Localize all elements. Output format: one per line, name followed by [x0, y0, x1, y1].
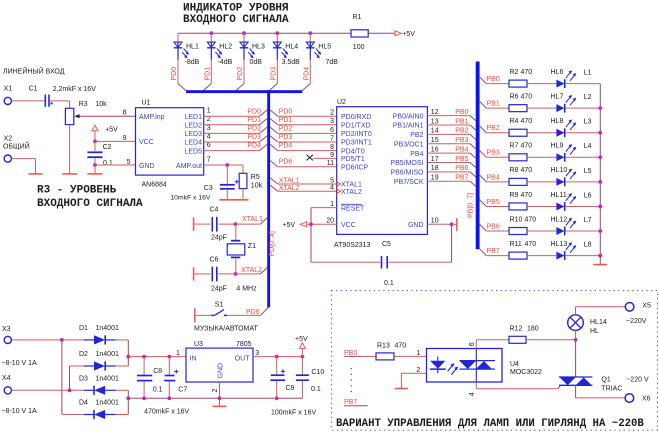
- svg-text:XTAL1: XTAL1: [242, 216, 263, 223]
- wire PB0 U2 pin12 to bus: [427, 116, 475, 121]
- wire X3 to D1: [11, 339, 83, 341]
- wire X1 to C1: [11, 100, 44, 102]
- svg-text:19: 19: [431, 175, 439, 182]
- junction X3 node: [60, 338, 64, 342]
- svg-text:Q1: Q1: [601, 376, 610, 383]
- capacitor C9 100mkF: [270, 357, 294, 399]
- svg-text:-4dB: -4dB: [218, 59, 233, 66]
- wire R9 to HL11: [527, 205, 556, 207]
- svg-text:HL8: HL8: [551, 118, 564, 125]
- svg-text:470: 470: [395, 342, 407, 349]
- potentiometer R3: [65, 101, 107, 124]
- ground U4: [395, 388, 408, 390]
- svg-text:9: 9: [123, 135, 127, 142]
- svg-text:C9: C9: [286, 385, 295, 392]
- svg-text:1n4001: 1n4001: [96, 325, 119, 332]
- wire XTAL1 to bus: [236, 218, 268, 224]
- LED HL3 (0dB): [240, 33, 265, 66]
- net label PB7: [344, 399, 368, 406]
- svg-text:HL3: HL3: [252, 44, 265, 51]
- svg-text:R7: R7: [510, 143, 519, 150]
- svg-text:PB3: PB3: [455, 137, 468, 144]
- terminal X6: [625, 394, 651, 403]
- svg-text:+5V: +5V: [282, 222, 295, 229]
- svg-text:C7: C7: [178, 387, 187, 394]
- wire R12 to lamp node: [526, 339, 576, 341]
- junction C7 top: [167, 355, 171, 359]
- ground C3/R5: [220, 199, 249, 201]
- svg-text:L8: L8: [584, 241, 592, 248]
- svg-text:7805: 7805: [236, 341, 252, 348]
- svg-text:10mkF x 16V: 10mkF x 16V: [170, 194, 211, 201]
- svg-text:PD6: PD6: [246, 309, 260, 316]
- wire X3 to D4: [62, 340, 84, 415]
- svg-text:PD4: PD4: [279, 143, 293, 150]
- wire +5V to VCC pin20: [307, 223, 337, 225]
- svg-text:GND: GND: [139, 163, 155, 170]
- wire XTAL2 to bus: [236, 268, 268, 274]
- wire PB6 U2 pin18 to bus: [427, 172, 475, 177]
- svg-text:R4: R4: [510, 118, 519, 125]
- wire HL12 to rail: [565, 230, 600, 232]
- svg-text:PB7: PB7: [455, 175, 468, 182]
- wire U3 GND down: [219, 382, 221, 406]
- svg-text:PD2: PD2: [247, 126, 261, 133]
- svg-text:100: 100: [353, 44, 365, 51]
- svg-text:X6: X6: [642, 396, 651, 403]
- wire PD4 to bus: [302, 60, 310, 91]
- junction C9 bottom: [275, 396, 279, 400]
- triac Q1: [559, 376, 622, 392]
- svg-text:470: 470: [521, 118, 533, 125]
- resistor R2 470: [509, 69, 532, 87]
- svg-text:~8-10 V 1A: ~8-10 V 1A: [2, 408, 38, 415]
- svg-text:8: 8: [123, 110, 127, 117]
- svg-text:4: 4: [207, 133, 211, 140]
- svg-text:PB1: PB1: [455, 118, 468, 125]
- svg-text:HL7: HL7: [551, 93, 564, 100]
- svg-text:L2: L2: [584, 94, 592, 101]
- svg-text:X1: X1: [4, 86, 13, 93]
- LED HL4 (3.5dB): [273, 33, 300, 66]
- svg-text:PB[0..7]: PB[0..7]: [467, 193, 474, 218]
- svg-text:1n4001: 1n4001: [96, 400, 119, 407]
- junction GND pin10: [450, 222, 454, 226]
- svg-text:PD6/ICP: PD6/ICP: [341, 165, 369, 172]
- svg-text:D4: D4: [79, 400, 88, 407]
- capacitor C10 0.1: [296, 357, 324, 399]
- wire PD2 to bus: [236, 60, 244, 91]
- wire R13 to U4 pin1: [394, 355, 438, 357]
- svg-text:U2: U2: [337, 99, 346, 106]
- svg-text:24pF: 24pF: [211, 235, 227, 242]
- svg-text:470: 470: [525, 241, 537, 248]
- svg-text:X3: X3: [2, 326, 11, 333]
- LED HL9: [551, 143, 577, 162]
- crystal Z1 4MHz: [227, 224, 256, 274]
- wire HL6 to rail: [565, 83, 600, 85]
- svg-text:470: 470: [521, 69, 533, 76]
- LED HL2 (-4dB): [207, 33, 233, 66]
- svg-text:МУЗЫКА/АВТОМАТ: МУЗЫКА/АВТОМАТ: [194, 325, 258, 332]
- terminal X3: [2, 326, 11, 344]
- junctions on rail: [598, 106, 602, 257]
- svg-text:L7: L7: [584, 217, 592, 224]
- svg-text:7: 7: [207, 157, 211, 164]
- svg-text:15: 15: [431, 137, 439, 144]
- wire X4 to D2: [70, 366, 84, 390]
- svg-text:470mkF x 16V: 470mkF x 16V: [144, 409, 189, 416]
- svg-text:X5: X5: [642, 303, 651, 310]
- wire PD2 U1 pin to U2: [204, 127, 337, 133]
- wire PB1 U2 pin13 to bus: [427, 125, 475, 130]
- svg-text:HL2: HL2: [219, 44, 232, 51]
- svg-text:PB2: PB2: [410, 132, 423, 139]
- svg-text:R11: R11: [510, 241, 522, 248]
- svg-text:U1: U1: [142, 100, 151, 107]
- svg-text:PD4: PD4: [303, 67, 310, 81]
- svg-text:3.5dB: 3.5dB: [282, 59, 301, 66]
- resistor R7 470: [509, 143, 532, 161]
- svg-text:4: 4: [469, 392, 476, 396]
- svg-text:470: 470: [521, 167, 533, 174]
- svg-text:XTAL1: XTAL1: [341, 182, 362, 189]
- ground R3: [62, 173, 77, 175]
- +5V power arrow U2: [282, 222, 306, 230]
- dashed option box: [332, 291, 658, 431]
- +5V power arrow out: [295, 336, 308, 356]
- wire PD1 to bus: [203, 60, 211, 91]
- capacitor C3 10mkF: [170, 165, 238, 201]
- svg-text:U4: U4: [510, 361, 519, 368]
- wire XTAL1 to U2: [270, 178, 337, 184]
- svg-text:C1: C1: [29, 86, 38, 93]
- svg-text:L1: L1: [584, 70, 592, 77]
- svg-text:PD1: PD1: [204, 67, 211, 81]
- junction minus rail: [126, 396, 130, 400]
- svg-text:PD2: PD2: [279, 126, 293, 133]
- junction C6/Z1: [234, 272, 238, 276]
- svg-text:470: 470: [521, 192, 533, 199]
- svg-text:PD6: PD6: [279, 159, 293, 166]
- LED HL13: [551, 241, 577, 260]
- svg-text:ИНДИКАТОР УРОВНЯ: ИНДИКАТОР УРОВНЯ: [183, 3, 289, 15]
- svg-text:X4: X4: [2, 375, 11, 382]
- ground bar C4: [193, 218, 195, 231]
- switch S1: [195, 302, 261, 323]
- wire PB5 from bus: [480, 200, 509, 207]
- svg-text:PD4: PD4: [247, 143, 261, 150]
- svg-text:HL4: HL4: [285, 44, 298, 51]
- svg-text:HL6: HL6: [551, 69, 564, 76]
- svg-text:HL5: HL5: [318, 44, 331, 51]
- svg-text:R6: R6: [510, 93, 519, 100]
- lamp HL14: [568, 307, 607, 340]
- wire X2 to ground: [11, 159, 35, 174]
- svg-text:PB0/AIN0: PB0/AIN0: [393, 113, 424, 120]
- LED HL6: [551, 69, 577, 88]
- svg-text:8: 8: [330, 144, 334, 151]
- svg-text:XTAL2: XTAL2: [341, 189, 362, 196]
- svg-text:ВХОДНОГО СИГНАЛА: ВХОДНОГО СИГНАЛА: [37, 198, 143, 210]
- svg-text:R12: R12: [510, 326, 523, 333]
- svg-text:PB7: PB7: [487, 248, 500, 255]
- svg-text:HL11: HL11: [551, 192, 567, 199]
- junction pin7/C3: [225, 163, 229, 167]
- diode D2 1n4001: [79, 351, 119, 371]
- svg-text:PD3/INT1: PD3/INT1: [341, 140, 372, 147]
- svg-text:PD0/RXD: PD0/RXD: [341, 114, 371, 121]
- svg-text:MOC3022: MOC3022: [510, 369, 542, 376]
- wire PB0 from bus: [480, 77, 509, 84]
- wire R4 to HL8: [527, 132, 556, 134]
- wire R3 wiper to U1 pin8: [79, 115, 135, 117]
- svg-text:PB5: PB5: [455, 156, 468, 163]
- svg-text:U3: U3: [194, 341, 203, 348]
- ground U2 (bar): [452, 218, 457, 231]
- svg-text:PB4: PB4: [410, 151, 423, 158]
- svg-text:-8dB: -8dB: [185, 59, 200, 66]
- svg-text:HL10: HL10: [551, 167, 568, 174]
- svg-text:16: 16: [431, 146, 439, 153]
- wire HL7 to rail: [565, 107, 600, 109]
- svg-text:R8: R8: [510, 167, 519, 174]
- wire R7 to HL9: [527, 156, 556, 158]
- junction +5V out: [301, 355, 305, 359]
- svg-text:VCC: VCC: [341, 222, 356, 229]
- svg-text:HL14: HL14: [590, 319, 607, 326]
- svg-text:470: 470: [521, 143, 533, 150]
- svg-text:20: 20: [326, 218, 334, 225]
- svg-text:1n4001: 1n4001: [96, 375, 119, 382]
- wire PD0 U1 pin to U2: [204, 110, 337, 116]
- resistor R1: [351, 14, 368, 51]
- wire PB7 from bus: [480, 249, 509, 256]
- wire +5V to U1 VCC pin9: [95, 140, 136, 142]
- wire HL13 to rail: [565, 255, 600, 257]
- svg-text:L5: L5: [584, 168, 592, 175]
- svg-text:R5: R5: [251, 174, 260, 181]
- svg-text:4: 4: [330, 185, 334, 192]
- svg-text:HL12: HL12: [551, 216, 568, 223]
- svg-text:PB6: PB6: [487, 223, 500, 230]
- svg-text:R10: R10: [510, 216, 523, 223]
- svg-text:0dB: 0dB: [250, 59, 263, 66]
- svg-text:LED3: LED3: [184, 131, 202, 138]
- LED HL1 (-8dB): [174, 33, 200, 66]
- resistor R9 470: [509, 192, 532, 210]
- optocoupler U4 MOC3022: [427, 349, 543, 383]
- svg-text:PB1/AIN1: PB1/AIN1: [393, 123, 424, 130]
- svg-text:18: 18: [431, 165, 439, 172]
- LED HL5 (7dB): [306, 33, 338, 66]
- wire lamp to X5: [576, 306, 626, 308]
- svg-text:PB3: PB3: [487, 150, 500, 157]
- wire R10 to HL12: [527, 230, 556, 232]
- svg-text:R3: R3: [79, 101, 88, 108]
- svg-text:AN6884: AN6884: [142, 181, 167, 188]
- svg-text:5: 5: [330, 177, 334, 184]
- svg-text:Z1: Z1: [248, 243, 256, 250]
- svg-text:2: 2: [212, 389, 219, 393]
- svg-text:LED4: LED4: [184, 140, 202, 147]
- svg-text:PB1: PB1: [487, 101, 500, 108]
- svg-text:GND: GND: [408, 222, 424, 229]
- svg-text:PD0: PD0: [279, 108, 293, 115]
- svg-text:1: 1: [330, 201, 334, 208]
- svg-text:R13: R13: [377, 342, 390, 349]
- svg-text:PD0: PD0: [171, 67, 178, 81]
- junction plus rail: [126, 355, 130, 359]
- svg-text:R9: R9: [510, 192, 519, 199]
- svg-text:C2: C2: [103, 144, 112, 151]
- pin numbers U1: [123, 108, 211, 166]
- svg-text:3: 3: [207, 125, 211, 132]
- svg-text:PD5/T1: PD5/T1: [341, 156, 365, 163]
- wire PB3 from bus: [480, 151, 509, 158]
- svg-text:1n4001: 1n4001: [96, 351, 119, 358]
- svg-text:PD4/T0: PD4/T0: [341, 148, 365, 155]
- resistor R13 470: [376, 342, 406, 360]
- wire GND pin10: [427, 223, 451, 225]
- capacitor C7 470mkF: [164, 357, 187, 399]
- svg-text:PD3: PD3: [279, 134, 293, 141]
- svg-text:PD3: PD3: [270, 67, 277, 81]
- svg-text:ЛИНЕЙНЫЙ ВХОД: ЛИНЕЙНЫЙ ВХОД: [3, 66, 65, 75]
- regulator U3 7805: [186, 341, 253, 382]
- junction dots on rail: [209, 31, 312, 35]
- svg-text:LED5: LED5: [184, 148, 202, 155]
- svg-text:D3: D3: [79, 375, 88, 382]
- terminal X4: [2, 375, 11, 394]
- svg-text:PD2: PD2: [237, 67, 244, 81]
- LED HL7: [551, 93, 577, 112]
- svg-text:470: 470: [521, 93, 533, 100]
- svg-text:PB2: PB2: [487, 125, 500, 132]
- wire PB1 from bus: [480, 101, 509, 108]
- svg-text:9: 9: [330, 152, 334, 159]
- svg-text:PD1: PD1: [247, 117, 261, 124]
- svg-text:C6: C6: [210, 256, 219, 263]
- wire RESET pullup: [311, 208, 337, 225]
- junction C9 top: [275, 355, 279, 359]
- svg-text:L6: L6: [584, 192, 592, 199]
- svg-text:LED1: LED1: [184, 114, 202, 121]
- wire HL11 to rail: [565, 205, 600, 207]
- svg-text:PB6: PB6: [455, 165, 468, 172]
- svg-text:1: 1: [416, 350, 420, 357]
- wire D2 to node: [116, 365, 129, 367]
- wire PB2 U2 pin14 to bus: [427, 134, 475, 139]
- wire PB3 U2 pin15 to bus: [427, 144, 475, 149]
- wire LED common rail: [599, 84, 601, 265]
- wire HL10 to rail: [565, 181, 600, 183]
- wire triac to X6: [576, 385, 625, 398]
- svg-text:470: 470: [525, 216, 537, 223]
- svg-text:AMP.inp: AMP.inp: [139, 114, 165, 121]
- note: R3 level: [37, 185, 143, 210]
- svg-text:ОБЩИЙ: ОБЩИЙ: [3, 142, 30, 151]
- svg-text:6: 6: [330, 127, 334, 134]
- wire U4 pin6 to R12: [476, 340, 509, 349]
- wire PB2 from bus: [480, 126, 509, 133]
- svg-text:PB2: PB2: [455, 128, 468, 135]
- svg-text:2: 2: [207, 116, 211, 123]
- svg-text:D1: D1: [79, 325, 88, 332]
- svg-text:R2: R2: [510, 69, 519, 76]
- svg-text:PB0: PB0: [487, 76, 500, 83]
- svg-text:0.1: 0.1: [311, 386, 321, 393]
- svg-text:3: 3: [255, 350, 259, 357]
- ground U3: [213, 405, 227, 407]
- wire R2 to HL6: [527, 83, 556, 85]
- svg-text:~8-10 V 1A: ~8-10 V 1A: [2, 360, 38, 367]
- LED HL12: [551, 216, 577, 235]
- wire PD3 U1 pin to U2: [204, 136, 337, 142]
- svg-text:PD[0..4]: PD[0..4]: [269, 231, 276, 256]
- svg-text:4 MHz: 4 MHz: [236, 285, 257, 292]
- svg-text:13: 13: [431, 118, 439, 125]
- wire R8 to HL10: [527, 181, 556, 183]
- diode D1 1n4001: [79, 325, 119, 345]
- wire PD4 U1 pin to U2: [204, 144, 337, 150]
- op-amp U1 AN6884: [136, 100, 204, 189]
- svg-text:+5V: +5V: [295, 336, 308, 343]
- junction C8 top: [142, 355, 146, 359]
- svg-text:+5V: +5V: [402, 31, 415, 38]
- svg-text:S1: S1: [215, 302, 224, 309]
- wire X4 to D3: [11, 389, 83, 391]
- svg-text:ВХОДНОГО СИГНАЛА: ВХОДНОГО СИГНАЛА: [183, 14, 289, 26]
- resistor R11 470: [509, 241, 536, 259]
- wire PB0 to R13: [361, 355, 376, 357]
- svg-text:~220 V: ~220 V: [626, 376, 649, 383]
- svg-text:PD1: PD1: [279, 117, 293, 124]
- capacitor C8 0.1: [137, 357, 163, 399]
- wire U4 pin2 to ground: [401, 373, 426, 388]
- wire node to triac: [575, 340, 577, 377]
- junction C4/Z1: [234, 222, 238, 226]
- svg-text:6: 6: [469, 342, 476, 346]
- ground rail: [593, 264, 607, 266]
- svg-text:XTAL2: XTAL2: [279, 185, 300, 192]
- svg-text:XTAL2: XTAL2: [241, 267, 262, 274]
- svg-text:6: 6: [207, 142, 211, 149]
- bus PD horizontal bar: [186, 90, 302, 93]
- svg-text:L4: L4: [584, 143, 592, 150]
- svg-text:TRIAC: TRIAC: [601, 386, 622, 393]
- svg-text:PB7/SCK: PB7/SCK: [394, 179, 424, 186]
- svg-text:C8: C8: [153, 368, 162, 375]
- junction X4 node: [68, 388, 72, 392]
- svg-text:0.1: 0.1: [103, 160, 113, 167]
- svg-text:RESET: RESET: [341, 205, 365, 212]
- wire U3 OUT to +5V: [253, 356, 302, 358]
- svg-text:100mkF x 16V: 100mkF x 16V: [271, 410, 316, 417]
- LED HL10: [551, 167, 577, 186]
- wire C1 to R3: [50, 101, 70, 108]
- svg-text:R1: R1: [353, 14, 362, 21]
- title: indicator: [183, 3, 289, 26]
- svg-text:7dB: 7dB: [326, 59, 339, 66]
- wire PD0 to bus: [178, 60, 186, 91]
- svg-text:PB4: PB4: [487, 174, 500, 181]
- wire U4 pin4 to gate: [476, 382, 560, 389]
- svg-text:HL9: HL9: [551, 143, 564, 150]
- terminal X2: [3, 135, 30, 162]
- wire top +5V rail: [178, 32, 395, 34]
- no-connect X pin9: [307, 155, 337, 161]
